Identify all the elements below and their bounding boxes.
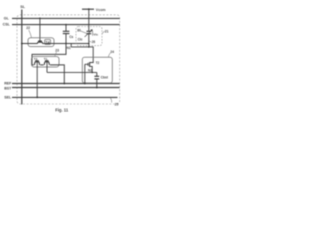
svg-text:Fig. 11: Fig. 11 — [55, 108, 69, 113]
wire CSL storage cap line — [12, 24, 120, 26]
capacitor Cbst — [94, 72, 99, 87]
svg-text:22: 22 — [26, 26, 30, 30]
box 23 transistor block — [32, 57, 60, 68]
label T4 box — [45, 39, 51, 44]
wire SL vertical source line — [21, 10, 23, 105]
node GL junction — [39, 18, 41, 20]
leader 22 — [29, 30, 32, 38]
wire SEL line — [12, 96, 118, 98]
wire T2 gate to REF — [84, 64, 86, 83]
leader 24 — [108, 53, 110, 57]
svg-text:Cs: Cs — [69, 35, 73, 39]
transistor T2 — [85, 62, 92, 72]
wire BST line — [12, 87, 120, 89]
svg-text:24: 24 — [110, 50, 114, 54]
wire B jog to T2 drain — [71, 44, 93, 63]
capacitor Cs — [63, 25, 70, 44]
svg-text:Vlc: Vlc — [93, 33, 98, 37]
svg-text:T2: T2 — [96, 61, 100, 65]
node SL junction — [21, 43, 23, 45]
wire box23 to REF — [59, 65, 64, 84]
node Cbst BST junction — [96, 87, 98, 89]
svg-text:21: 21 — [105, 29, 109, 33]
node CSL junction for Cs — [65, 24, 67, 26]
node N1 junction on wire A — [65, 43, 67, 45]
svg-text:CSL: CSL — [3, 22, 11, 26]
arrow variable Clc — [85, 30, 93, 37]
svg-text:SEL: SEL — [4, 95, 12, 99]
wire C boost node N2 — [47, 71, 97, 73]
node Clc-wireA junction — [88, 43, 90, 45]
svg-text:GL: GL — [4, 16, 10, 20]
svg-text:N1: N1 — [67, 46, 71, 50]
svg-text:T3: T3 — [34, 57, 38, 61]
leader 80 — [81, 31, 87, 33]
node T3 gate SEL junction — [36, 97, 38, 99]
wire Vcom stub — [82, 8, 94, 10]
svg-text:Clc: Clc — [78, 37, 83, 41]
svg-text:T4: T4 — [45, 41, 49, 45]
svg-text:Cbst: Cbst — [101, 76, 109, 80]
wire T4 gate from GL — [39, 18, 41, 41]
transistor T3 — [34, 61, 39, 65]
dashed box 21 LC cell — [76, 27, 102, 46]
wire box23 internal — [32, 64, 59, 66]
node Vcom junction — [88, 8, 90, 10]
node box23 REF junction — [63, 83, 65, 85]
node T2 source junction — [91, 72, 93, 74]
wire N1 to box 23 — [32, 44, 66, 65]
label Vlc — [92, 31, 94, 36]
wire A signal wire from SL to pixel node — [22, 43, 89, 45]
box 24 boost block — [82, 57, 112, 83]
outer pixel dashed boundary box — [17, 15, 120, 104]
wire REF line — [12, 83, 120, 85]
wire GL gate line — [12, 17, 120, 19]
svg-text:Vcom: Vcom — [96, 8, 106, 12]
svg-text:25: 25 — [115, 103, 119, 107]
wire Vcom to Clc — [88, 9, 90, 31]
svg-text:SL: SL — [20, 5, 26, 9]
svg-text:80: 80 — [77, 29, 81, 33]
transistor T1 — [44, 61, 49, 65]
transistor T4 — [37, 41, 42, 44]
node T2 gate REF junction — [84, 83, 86, 85]
leader 25 — [111, 98, 112, 102]
svg-text:REF: REF — [4, 82, 12, 86]
svg-text:26: 26 — [92, 40, 96, 44]
box 22 transistor block — [28, 38, 54, 47]
wire T3 gate to SEL — [36, 62, 38, 97]
leader 26 — [89, 41, 91, 42]
svg-text:T1: T1 — [44, 57, 48, 61]
leader 23 — [55, 52, 57, 56]
node Clc-wireB junction — [88, 46, 90, 48]
wire T1 gate to N2 — [46, 62, 48, 72]
leader 21 — [102, 31, 104, 34]
svg-text:23: 23 — [55, 48, 59, 52]
capacitor Clc — [87, 31, 92, 47]
svg-text:BST: BST — [4, 86, 12, 90]
